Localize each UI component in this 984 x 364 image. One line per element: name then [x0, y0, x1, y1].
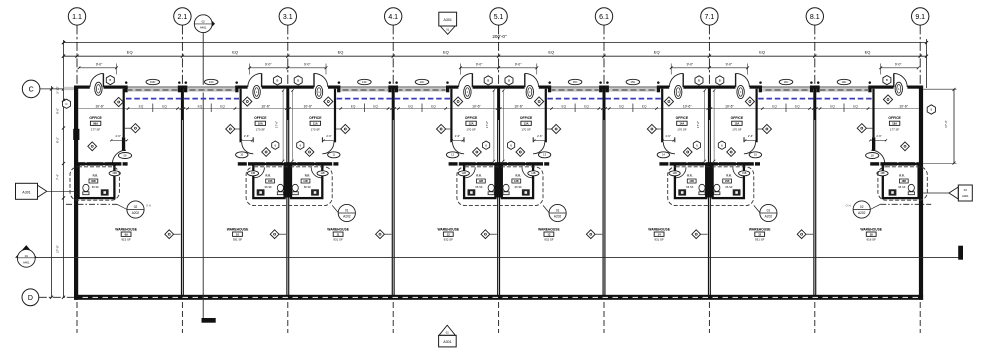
- grid bubble 3.1: [279, 8, 296, 86]
- storefront EQ dimensions: [619, 104, 647, 113]
- storefront hexagon tag: [484, 76, 492, 85]
- left keynote hexagon: [63, 99, 71, 108]
- svg-text:EQ: EQ: [584, 104, 589, 108]
- toilet: [83, 184, 89, 194]
- restroom 11B door swing: [311, 167, 321, 177]
- svg-text:OFFICE: OFFICE: [309, 116, 322, 120]
- storefront tag 13C: [358, 79, 372, 84]
- svg-text:09A: 09A: [93, 122, 98, 126]
- svg-text:R.R.: R.R.: [516, 174, 522, 178]
- svg-text:7'-4": 7'-4": [56, 174, 60, 180]
- office keynote diamonds: [88, 97, 140, 150]
- entry door unit 13: [525, 73, 539, 89]
- svg-text:9'-0": 9'-0": [96, 62, 103, 66]
- office depth dimension 17'-6: [274, 89, 284, 162]
- svg-text:R.R.: R.R.: [476, 174, 482, 178]
- entry door tag unit 13: [526, 85, 533, 98]
- svg-text:915 SF: 915 SF: [121, 238, 131, 242]
- grid bubble C: [22, 80, 74, 98]
- svg-text:19C: 19C: [842, 80, 847, 84]
- office depth dimension 17'-6: [713, 89, 715, 162]
- office depth dimension 17'-6: [485, 89, 495, 162]
- storefront EQ dimensions: [772, 104, 800, 113]
- svg-text:12: 12: [447, 233, 450, 237]
- svg-text:15C: 15C: [573, 80, 578, 84]
- grid line 5.1 below building: [498, 302, 500, 333]
- office 10A door tag: [236, 152, 248, 158]
- canopy dashed line (blue): [126, 98, 239, 100]
- svg-text:A301: A301: [962, 194, 969, 198]
- bottom exterior wall: [74, 295, 923, 300]
- svg-text:66 SF: 66 SF: [515, 185, 523, 189]
- grid line 7.1 below building: [708, 302, 710, 333]
- svg-text:OFFICE: OFFICE: [731, 116, 744, 120]
- office 12A label: [465, 116, 478, 131]
- office keynote diamonds: [857, 95, 909, 151]
- section marker 03-A301 left: [16, 183, 75, 199]
- office 11A bottom wall: [287, 162, 338, 166]
- svg-text:66 SF: 66 SF: [725, 185, 733, 189]
- svg-text:1.1: 1.1: [72, 14, 82, 21]
- door dimension 9'-0: [286, 62, 327, 74]
- door dimension 2-6: [869, 134, 887, 141]
- lavatory counter: [101, 189, 109, 195]
- svg-text:10'-6": 10'-6": [472, 104, 481, 108]
- restroom 14B door tag: [669, 171, 680, 176]
- warehouse keynote diamond at grid 2.1: [165, 230, 181, 239]
- svg-text:14B: 14B: [689, 180, 694, 183]
- grid line 2.1 below building: [181, 302, 183, 333]
- lavatory counter: [678, 189, 686, 195]
- svg-text:B: B: [886, 78, 888, 82]
- office 18A door tag: [866, 153, 879, 159]
- storefront hexagon tag: [294, 76, 302, 85]
- restroom 10B labels: [265, 174, 275, 189]
- restroom 09B door tag: [109, 171, 120, 176]
- restroom 14B walls: [675, 164, 713, 198]
- unit 8 rr leader dash line: [880, 203, 931, 205]
- svg-text:OFFICE: OFFICE: [520, 116, 533, 120]
- left dimension chain inner: [62, 40, 65, 299]
- storefront tag 13C: [204, 79, 218, 84]
- storefront EQ dimensions: [139, 104, 168, 113]
- section marker 02-A401 top: [194, 14, 215, 33]
- entry door unit 18: [894, 73, 908, 89]
- svg-text:3.1: 3.1: [283, 14, 293, 21]
- storefront EQ dimensions: [198, 104, 226, 113]
- door dimension 2-6: [323, 134, 336, 141]
- office 14A label: [676, 116, 689, 131]
- svg-text:1MC: 1MC: [150, 80, 156, 84]
- svg-text:A202: A202: [765, 214, 773, 218]
- office 13A bottom wall: [498, 162, 549, 166]
- svg-text:931 SF: 931 SF: [755, 238, 765, 242]
- canopy dashed line (blue): [758, 98, 872, 100]
- svg-text:4.1: 4.1: [388, 14, 398, 21]
- grid bubble 6.1: [595, 8, 612, 86]
- office keynote diamonds: [647, 97, 700, 156]
- svg-text:9'-0": 9'-0": [687, 62, 694, 66]
- warehouse 09 label: [115, 227, 137, 241]
- svg-text:EQ: EQ: [139, 104, 144, 108]
- svg-text:170 SF: 170 SF: [466, 127, 476, 131]
- section cut line 01-A401 horizontal: [35, 257, 958, 259]
- office depth dimension 17'-6: [502, 89, 504, 162]
- elevation marker A301 bottom: [439, 325, 457, 347]
- svg-text:EQ: EQ: [865, 50, 871, 55]
- restroom 12B labels: [475, 174, 485, 189]
- svg-text:916 SF: 916 SF: [867, 238, 877, 242]
- restroom enclosure dashed boundary: [878, 167, 927, 200]
- storefront glazing 15C: [548, 81, 603, 92]
- storefront glazing 14C: [395, 81, 450, 92]
- svg-text:2'-6": 2'-6": [876, 134, 881, 138]
- svg-text:C: C: [29, 86, 34, 93]
- restroom 15B door swing: [733, 167, 743, 177]
- section marker 04-A301 right: [923, 185, 972, 201]
- svg-text:17'-6": 17'-6": [696, 121, 700, 128]
- left dimension chain outer: [50, 86, 53, 299]
- office 11A door tag: [328, 152, 340, 158]
- svg-text:B: B: [109, 78, 111, 82]
- svg-text:932 SF: 932 SF: [444, 238, 454, 242]
- svg-text:6.1: 6.1: [599, 14, 609, 21]
- svg-text:14B: 14B: [672, 172, 677, 175]
- warehouse 14 label: [648, 227, 670, 241]
- demising wall at grid 8.1: [813, 88, 816, 295]
- svg-text:13: 13: [547, 233, 550, 237]
- svg-text:13C: 13C: [209, 80, 214, 84]
- svg-text:10'-6": 10'-6": [95, 104, 104, 108]
- lavatory counter: [522, 189, 530, 195]
- storefront hexagon tag: [106, 76, 114, 85]
- warehouse 18 label: [860, 227, 882, 241]
- left exterior wall: [74, 86, 78, 300]
- office 09A label: [89, 116, 102, 131]
- svg-text:R.R.: R.R.: [93, 174, 99, 178]
- svg-text:EQ: EQ: [795, 104, 800, 108]
- office 13A door swing: [533, 142, 545, 154]
- svg-text:8'-2": 8'-2": [56, 137, 60, 143]
- entry door unit 12: [458, 73, 472, 89]
- svg-text:10'-6": 10'-6": [261, 104, 270, 108]
- door dimension 9'-0: [78, 62, 118, 74]
- section marker 01-A401 left: [15, 245, 37, 267]
- svg-text:WAREHOUSE: WAREHOUSE: [538, 227, 560, 231]
- svg-text:5.1: 5.1: [494, 14, 504, 21]
- callout 01/A202: [754, 204, 777, 221]
- toilet: [292, 184, 298, 194]
- grid bubble 9.1: [912, 8, 929, 86]
- restroom 09B labels: [89, 174, 99, 189]
- svg-text:01: 01: [556, 208, 560, 212]
- restroom 14B labels: [686, 174, 696, 189]
- svg-text:A202: A202: [554, 214, 562, 218]
- office 13A wall: [533, 89, 547, 143]
- svg-text:02: 02: [134, 205, 138, 209]
- office 09A bottom wall: [76, 162, 127, 166]
- door dimension 2-6: [662, 134, 675, 141]
- svg-text:17'-6": 17'-6": [944, 120, 948, 128]
- svg-text:11A: 11A: [313, 122, 318, 126]
- svg-text:66 SF: 66 SF: [898, 185, 906, 189]
- restroom 11B labels: [301, 174, 311, 189]
- svg-text:9'-0": 9'-0": [726, 62, 733, 66]
- toilet: [488, 184, 494, 194]
- svg-text:A202: A202: [132, 211, 140, 215]
- overall dimension line 200-0: [62, 34, 928, 44]
- svg-text:15B: 15B: [725, 180, 730, 183]
- grid bubble 4.1: [385, 8, 402, 86]
- office 18A wall: [872, 89, 875, 151]
- office 14A door tag: [657, 152, 669, 158]
- svg-text:EQ: EQ: [220, 104, 225, 108]
- storefront glazing 19C: [816, 81, 871, 92]
- left wall pilaster: [73, 129, 79, 140]
- restroom 10B door tag: [247, 171, 258, 176]
- svg-text:13A: 13A: [524, 122, 529, 126]
- svg-text:9'-0": 9'-0": [304, 62, 311, 66]
- svg-text:04: 04: [964, 188, 968, 192]
- right side dimension 17'-6: [923, 88, 956, 165]
- svg-text:2'-6": 2'-6": [537, 134, 542, 138]
- office keynote diamonds: [718, 97, 771, 156]
- storefront hexagon tag: [883, 76, 891, 85]
- svg-text:EQ: EQ: [642, 104, 647, 108]
- svg-text:11B: 11B: [321, 172, 325, 175]
- svg-text:B: B: [698, 79, 700, 83]
- svg-text:13B: 13B: [531, 172, 536, 175]
- office depth dimension 17'-6: [291, 89, 293, 162]
- svg-text:931 SF: 931 SF: [233, 238, 243, 242]
- svg-text:02: 02: [860, 205, 864, 209]
- top exterior wall: [74, 86, 923, 89]
- section cut flag right: [958, 246, 963, 260]
- office 13A door tag: [538, 152, 550, 158]
- svg-text:14A: 14A: [679, 122, 684, 126]
- svg-text:2'-6": 2'-6": [244, 134, 249, 138]
- svg-text:15A: 15A: [734, 122, 739, 126]
- svg-text:WAREHOUSE: WAREHOUSE: [437, 227, 459, 231]
- svg-text:OFFICE: OFFICE: [89, 116, 102, 120]
- toilet: [714, 184, 720, 194]
- office 11A wall: [322, 89, 336, 143]
- warehouse keynote diamond at grid 8.1: [797, 230, 813, 239]
- restroom enclosure dashed boundary: [70, 167, 119, 200]
- svg-text:66 SF: 66 SF: [475, 185, 483, 189]
- svg-text:10'-6": 10'-6": [899, 104, 908, 108]
- svg-text:10A: 10A: [258, 122, 263, 126]
- storefront glazing 13C: [337, 81, 392, 92]
- warehouse 13 label: [538, 227, 560, 241]
- svg-text:EQ: EQ: [548, 50, 554, 55]
- grid line 8.1 below building: [814, 302, 816, 333]
- callout 02/A202: [846, 201, 881, 218]
- office 14A door swing: [663, 142, 675, 154]
- svg-text:66 SF: 66 SF: [265, 185, 273, 189]
- warehouse 15 label: [749, 227, 771, 241]
- door dimension 9'-0: [497, 62, 538, 74]
- demising wall at grid 7.1: [708, 88, 711, 295]
- restroom 14B door swing: [676, 167, 686, 177]
- svg-text:01: 01: [345, 208, 349, 212]
- office 15A label: [731, 116, 744, 131]
- restroom 11B door tag: [317, 171, 328, 176]
- lavatory counter: [311, 189, 319, 195]
- svg-text:R.R.: R.R.: [726, 174, 732, 178]
- office depth dimension 17'-6: [696, 89, 706, 162]
- svg-text:66 SF: 66 SF: [92, 185, 100, 189]
- canopy dashed line (blue): [547, 98, 661, 100]
- svg-text:A301: A301: [443, 340, 451, 344]
- svg-text:170 SF: 170 SF: [677, 127, 687, 131]
- grid bubble 8.1: [806, 8, 823, 86]
- svg-text:EQ: EQ: [561, 104, 566, 108]
- EQ bay dimension line: [62, 50, 928, 58]
- svg-text:EQ: EQ: [443, 50, 449, 55]
- restroom 15B door tag: [739, 171, 750, 176]
- door dimension 9'-0: [879, 62, 919, 74]
- svg-text:9'-0": 9'-0": [515, 62, 522, 66]
- grid bubble 5.1: [490, 8, 507, 86]
- svg-text:12A: 12A: [469, 122, 474, 126]
- storefront tag 15C: [626, 79, 640, 84]
- grid line 4.1 below building: [392, 302, 394, 333]
- door dimension 2-6: [533, 134, 546, 141]
- door dimension 2-6: [110, 134, 128, 141]
- demising wall at grid 5.1: [497, 88, 500, 295]
- svg-text:27'-0": 27'-0": [56, 245, 60, 253]
- office 09A wall: [122, 89, 125, 151]
- callout 01/A202: [543, 204, 566, 221]
- svg-text:WAREHOUSE: WAREHOUSE: [227, 227, 249, 231]
- storefront hexagon tag: [695, 76, 703, 85]
- svg-text:13C: 13C: [362, 80, 367, 84]
- svg-text:200'-0": 200'-0": [492, 34, 507, 39]
- entry door tag unit 11: [315, 85, 322, 98]
- restroom 18B walls: [883, 164, 919, 198]
- demising wall at grid 3.1: [286, 88, 289, 295]
- storefront hexagon tag: [273, 76, 281, 85]
- svg-text:10'-6": 10'-6": [303, 104, 312, 108]
- svg-text:EQ: EQ: [654, 50, 660, 55]
- warehouse keynote diamond at grid 3.1: [270, 230, 286, 239]
- svg-text:9'-0": 9'-0": [476, 62, 483, 66]
- svg-text:932 SF: 932 SF: [544, 238, 554, 242]
- canopy dashed line (blue): [337, 98, 451, 100]
- demising wall at grid 2.1: [181, 88, 184, 295]
- svg-text:2'-6": 2'-6": [748, 134, 753, 138]
- svg-text:11: 11: [337, 233, 340, 237]
- office 15A bottom wall: [709, 162, 760, 166]
- lavatory counter: [889, 189, 897, 195]
- restroom 18B labels: [898, 174, 908, 189]
- restroom 13B door swing: [522, 167, 532, 177]
- restroom enclosure dashed boundary: [668, 167, 754, 206]
- office 18A bottom wall: [870, 162, 921, 166]
- svg-text:EQ: EQ: [830, 104, 835, 108]
- svg-text:EQ: EQ: [162, 104, 167, 108]
- entry door unit 09: [90, 73, 104, 89]
- storefront glazing 16C: [759, 81, 814, 92]
- svg-text:18A: 18A: [892, 122, 897, 126]
- grid bubble 1.1: [68, 8, 85, 86]
- svg-text:R.R.: R.R.: [266, 174, 272, 178]
- svg-text:OFFICE: OFFICE: [254, 116, 267, 120]
- svg-text:B: B: [487, 79, 489, 83]
- lavatory counter: [733, 189, 741, 195]
- entry door tag unit 10: [253, 85, 260, 98]
- grid line 1.1 below building: [76, 302, 78, 333]
- grid bubble D: [22, 289, 74, 306]
- door dimension 2-6: [451, 134, 464, 141]
- storefront EQ dimensions: [561, 104, 589, 113]
- svg-text:EQ: EQ: [619, 104, 624, 108]
- svg-text:01: 01: [25, 254, 29, 258]
- svg-text:931 SF: 931 SF: [333, 238, 343, 242]
- section cut line 02-A401 vertical: [202, 33, 204, 319]
- grid bubble 2.1: [174, 8, 191, 86]
- svg-text:18B: 18B: [880, 172, 885, 175]
- svg-text:2.1: 2.1: [178, 14, 188, 21]
- restroom 12B door tag: [458, 171, 469, 176]
- office 10A label: [254, 116, 267, 131]
- unit 1 rr leader dash line: [66, 203, 117, 205]
- svg-text:B: B: [719, 79, 721, 83]
- svg-text:2'-6": 2'-6": [116, 134, 121, 138]
- svg-text:170 SF: 170 SF: [521, 127, 531, 131]
- storefront glazing 1MC: [124, 81, 181, 92]
- svg-text:2'-6": 2'-6": [455, 134, 460, 138]
- svg-text:B: B: [297, 79, 299, 83]
- grid line 9.1 below building: [919, 302, 921, 333]
- svg-text:D: D: [28, 295, 33, 302]
- svg-text:11B: 11B: [303, 180, 308, 183]
- storefront tag 15C: [568, 79, 582, 84]
- svg-text:10B: 10B: [268, 180, 273, 183]
- office 11A door swing: [322, 142, 334, 154]
- svg-text:O.H.: O.H.: [146, 204, 152, 208]
- entry door unit 10: [248, 73, 262, 89]
- svg-text:R.R.: R.R.: [899, 174, 905, 178]
- restroom 13B walls: [495, 164, 533, 198]
- svg-text:A401: A401: [23, 260, 30, 264]
- svg-text:10'-6": 10'-6": [725, 104, 734, 108]
- svg-text:18: 18: [870, 233, 873, 237]
- grid line 3.1 below building: [287, 302, 289, 333]
- restroom 15B labels: [723, 174, 733, 189]
- warehouse keynote diamond at grid 6.1: [586, 230, 602, 239]
- warehouse 12 label: [437, 227, 459, 241]
- office 09A door swing: [112, 150, 126, 164]
- entry door unit 15: [735, 73, 749, 89]
- office 14A wall: [661, 89, 675, 143]
- door dimension 2-6: [744, 134, 757, 141]
- right exterior wall: [919, 86, 923, 300]
- svg-text:3'-10": 3'-10": [56, 86, 60, 94]
- storefront hexagon tag: [505, 76, 513, 85]
- svg-text:10'-6": 10'-6": [514, 104, 523, 108]
- right keynote hexagon: [927, 105, 935, 114]
- svg-text:OFFICE: OFFICE: [676, 116, 689, 120]
- toilet: [699, 184, 705, 194]
- svg-text:66 SF: 66 SF: [304, 185, 312, 189]
- grid bubble 7.1: [701, 8, 718, 86]
- svg-text:14: 14: [658, 233, 661, 237]
- restroom enclosure dashed boundary: [246, 167, 332, 206]
- office 12A wall: [450, 89, 464, 143]
- svg-text:A202: A202: [858, 211, 866, 215]
